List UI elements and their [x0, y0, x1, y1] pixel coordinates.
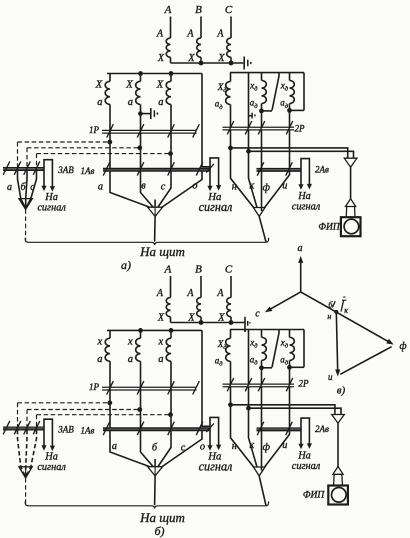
svg-text:а: а [158, 354, 163, 365]
secondary winding 1 coil [105, 338, 110, 361]
secondary winding 3 top lead [170, 74, 172, 82]
junction dot dashed3/wire c [168, 412, 173, 417]
3Ав contact slash x36.5 [33, 421, 40, 434]
phasor vector a arrowhead [298, 256, 303, 263]
svg-text:н: н [232, 441, 237, 452]
svg-text:1Ав: 1Ав [81, 166, 95, 176]
primary winding label X (С) [217, 312, 225, 323]
svg-text:А: А [164, 264, 172, 276]
aux winding 2 lead+coil [262, 73, 267, 111]
phase А lead wire [170, 276, 172, 298]
junction dot bus/B [199, 61, 204, 66]
aux winding 3 label xд [280, 337, 289, 349]
phase label С [225, 264, 233, 276]
3Ав wire c to junction [26, 430, 37, 477]
primary X lead (В) [200, 57, 202, 63]
secondary group top bus [107, 73, 202, 75]
terminal label и [282, 440, 287, 451]
junction dot earth tap (winding b) [138, 111, 143, 116]
dashed signal wire 2 [27, 409, 140, 411]
junction dot dashed2/wire b [137, 145, 142, 150]
На щит label [139, 510, 185, 525]
junction dot bus/B [199, 320, 204, 325]
dashed signal wire 3 [37, 414, 171, 416]
dashed signal wire 1 [18, 141, 110, 143]
2Ав contact slash x260.5 [257, 422, 264, 435]
secondary right feeder wire [202, 330, 210, 426]
breaker 1Ав label [81, 166, 95, 176]
dashed drop to panel bus [25, 478, 27, 505]
2Ав label [315, 165, 329, 175]
wire и [265, 387, 290, 467]
svg-text:2Ав: 2Ав [315, 165, 329, 175]
фип cable junction [332, 415, 345, 424]
wire right junction to panel [259, 476, 266, 505]
svg-text:X: X [217, 53, 225, 64]
secondary winding 2 coil [136, 81, 141, 104]
svg-text:н: н [327, 312, 331, 321]
1Ав contact slash x140.5 [137, 422, 144, 435]
svg-text:а: а [98, 182, 103, 193]
2Р contact slash x230.5 [227, 378, 234, 391]
aux wire 2 [248, 330, 250, 385]
3Ав signal arrow left [41, 186, 46, 192]
phase В lead wire [200, 276, 202, 298]
svg-text:сигнал: сигнал [37, 202, 66, 213]
svg-text:X: X [125, 80, 133, 91]
junction dot aux w2 bottom [259, 365, 264, 370]
2Ав signal arrow left [298, 444, 303, 450]
cable junction (3Ав) [19, 467, 32, 478]
aux wire 2 (earthed) [248, 73, 250, 128]
svg-text:а: а [128, 97, 133, 108]
svg-text:А: А [216, 288, 224, 299]
breaker 1Ав contact row [103, 428, 210, 431]
svg-text:а: а [97, 354, 102, 365]
фип box [328, 486, 348, 505]
terminal label в [141, 181, 146, 192]
secondary winding 1 label a [97, 97, 102, 108]
terminal label о [200, 442, 205, 453]
phase label С [225, 4, 233, 16]
1Р contact slash x196 [193, 124, 200, 137]
dashed drop 1 [17, 142, 19, 167]
aux group right edge [303, 73, 305, 111]
dashed signal wire 3 [37, 153, 171, 155]
secondary winding 1 top lead [109, 330, 111, 338]
phasor tick k [341, 300, 344, 311]
svg-text:в: в [141, 181, 146, 192]
3Ав На сигнал label [37, 452, 66, 473]
secondary winding 2 bottom lead [140, 104, 142, 168]
svg-text:В: В [195, 264, 202, 276]
junction dot фип feed 1 [228, 146, 233, 151]
svg-text:А: А [156, 288, 164, 299]
secondary winding 2 bottom lead [140, 361, 142, 428]
phasor label ф [399, 341, 406, 352]
relay 2Р contact row [223, 127, 295, 130]
wire b to junction [141, 171, 154, 207]
secondary winding 3 coil [166, 338, 171, 361]
1Р contact slash x171 [168, 124, 175, 137]
3Ав contact slash x6.5 [3, 421, 10, 434]
junction dot фип feed 1 [228, 402, 233, 407]
terminal label а [98, 182, 103, 193]
3Ав contact slash x17.5 [14, 421, 21, 434]
3Ав wire a to junction [18, 430, 26, 477]
secondary winding 1 top lead [109, 74, 111, 82]
фип connector triangle [333, 467, 343, 475]
relay 1Р contact row [102, 130, 197, 133]
secondary winding 2 label a [128, 354, 133, 365]
primary winding label X (В) [187, 53, 195, 64]
svg-text:1Ав: 1Ав [81, 425, 95, 435]
svg-text:ФИП: ФИП [318, 222, 341, 232]
wire a to junction [110, 431, 149, 467]
svg-text:и: и [282, 180, 287, 191]
cable junction (3Ав) [19, 199, 32, 210]
primary winding label А (С) [216, 29, 224, 40]
primary neutral bus [171, 62, 244, 64]
junction dot dashed1/wire a [107, 140, 112, 145]
3Ав wire c to junction [26, 170, 37, 208]
secondary winding 2 label X [127, 336, 133, 347]
3Ав signal arrow left [41, 445, 46, 451]
terminal label н [232, 441, 237, 452]
wire ф [261, 387, 263, 471]
3Ав signal bracket [44, 419, 52, 446]
фип cable junction [344, 158, 357, 167]
wire o to junction [162, 171, 202, 207]
sub-label б) [154, 524, 164, 538]
aux winding 3 lead+coil [290, 330, 295, 368]
aux bottom link w3 [290, 366, 305, 368]
aux winding 2 label xд [249, 81, 258, 93]
secondary winding 2 coil [136, 338, 141, 361]
phasor label б [328, 300, 333, 309]
relay 1Р label [89, 382, 100, 392]
3Ав wire b to junction [26, 430, 27, 477]
aux winding 3 label aд [280, 355, 289, 367]
3Ав contact slash x6.5 [3, 161, 10, 174]
1Ав bracket slash [206, 423, 214, 432]
1Р contact slash x110 [107, 381, 114, 394]
primary neutral bus [171, 322, 245, 324]
primary winding label X (В) [187, 312, 195, 323]
aux wire 3 drop [261, 111, 263, 127]
svg-text:ф: ф [263, 182, 271, 193]
svg-text:На щит: На щит [139, 510, 185, 525]
aux winding 2 label xд [249, 337, 258, 349]
primary winding coil (В phase) [197, 38, 201, 57]
secondary group top bus [107, 329, 202, 331]
svg-text:X: X [187, 53, 195, 64]
secondary winding 1 coil [105, 81, 110, 104]
1Ав contact slash x199.5 [196, 422, 203, 435]
aux bottom link w2 [262, 367, 273, 369]
фип feed line 2 [249, 151, 354, 158]
secondary winding 3 label X [158, 336, 164, 347]
1Ав contact slash x106.5 [103, 162, 110, 175]
1Ав contact slash x140.5 [137, 162, 144, 175]
wire к [249, 387, 258, 467]
aux winding 1 label aд [215, 99, 224, 111]
relay 2Р label [299, 378, 310, 388]
breaker 3Ав contact row [3, 427, 44, 430]
terminal label б [152, 443, 158, 454]
aux group top bus [230, 329, 304, 331]
aux group top bus [230, 72, 304, 74]
phase С lead wire [230, 276, 232, 298]
aux winding 1 lead+coil [226, 73, 231, 128]
primary X lead (А) [170, 57, 172, 63]
aux winding 3 lead+coil [290, 73, 295, 111]
svg-text:3АВ: 3АВ [57, 425, 74, 435]
2Ав На сигнал label [292, 451, 321, 473]
phasor tick b [332, 301, 335, 307]
фип lamp circle [344, 219, 359, 234]
secondary winding 3 top lead [170, 330, 172, 338]
phasor vector ф line [301, 292, 389, 342]
aux earth tick [249, 115, 252, 117]
phasor vector c line [269, 292, 301, 310]
svg-text:сигнал: сигнал [37, 462, 66, 473]
aux winding 2 lead+coil [262, 330, 267, 368]
3Ав contact slash x17.5 [14, 161, 21, 174]
1Р contact slash x140.5 [137, 381, 144, 394]
secondary right feeder wire [202, 74, 210, 167]
1Ав На сигнал label [199, 451, 233, 474]
aux winding 3 label xд [280, 81, 289, 93]
фип feed line 1 [231, 148, 348, 158]
phase С lead wire [230, 17, 232, 39]
phase В lead wire [200, 17, 202, 39]
aux winding 1 label Xд [217, 82, 228, 94]
svg-text:2Р: 2Р [295, 124, 306, 134]
фип lamp circle [332, 488, 347, 503]
1Ав contact slash x199.5 [196, 162, 203, 175]
junction dot aux w3 bottom [287, 365, 292, 370]
phase label А [164, 4, 172, 16]
1Ав contact slash x171 [168, 422, 175, 435]
3Ав contact slash x27 [24, 161, 31, 174]
svg-text:и: и [282, 440, 287, 451]
1Ав bracket slash [206, 164, 214, 173]
terminal label к [249, 440, 254, 451]
secondary winding 2 top lead [140, 74, 142, 82]
relay 2Р label [295, 124, 306, 134]
panel bracket [25, 501, 268, 508]
wire c to junction [158, 171, 171, 207]
phasor vector a line [300, 262, 302, 292]
фип drop wire [350, 167, 352, 199]
phasor label a [298, 243, 303, 254]
panel bracket [25, 238, 268, 245]
wire и [265, 130, 290, 208]
junction dot фип feed 2 [246, 149, 251, 154]
wire н [231, 130, 254, 208]
3Ав contact slash x27 [24, 421, 31, 434]
3Ав label [57, 425, 74, 435]
3Ав wire b to junction [26, 170, 27, 208]
2Ав На сигнал label [292, 191, 321, 213]
primary winding label А (В) [186, 288, 194, 299]
primary winding coil (А phase) [166, 38, 170, 57]
wire b to junction [141, 431, 154, 467]
primary winding coil (А phase) [166, 298, 170, 317]
svg-text:X: X [95, 80, 103, 91]
primary X lead (С) [230, 57, 232, 63]
phasor label н [327, 312, 331, 321]
junction dot dashed3/wire c [168, 151, 173, 156]
svg-text:и: и [328, 372, 333, 382]
svg-text:С: С [225, 264, 233, 276]
wire junction to panel [154, 200, 157, 242]
svg-text:с: с [161, 182, 166, 193]
ground (aux) [252, 113, 255, 119]
cable junction (main) [148, 207, 163, 216]
3Ав terminal c label [30, 182, 35, 193]
1Ав signal bracket [210, 417, 219, 446]
svg-text:а: а [97, 97, 102, 108]
primary X lead (В) [200, 317, 202, 323]
secondary winding 1 label X [95, 80, 103, 91]
cable junction (main) [148, 467, 163, 476]
secondary winding 1 bottom lead [109, 361, 111, 428]
aux bottom link w2 [262, 110, 273, 112]
earth tap wire [141, 113, 151, 115]
2Ав signal bracket [301, 418, 309, 444]
phasor label и [328, 372, 333, 382]
aux winding 2 label aд [250, 98, 259, 110]
svg-text:б): б) [154, 524, 164, 538]
3Ав На сигнал label [37, 192, 66, 213]
terminal label с [181, 443, 186, 454]
terminal label с [161, 182, 166, 193]
primary winding label А (А) [156, 288, 164, 299]
3Ав contact slash x36.5 [33, 161, 40, 174]
svg-text:В: В [195, 4, 202, 16]
dashed signal wire 1 [18, 402, 110, 404]
cable junction (right) [253, 467, 265, 476]
junction dot dashed1/wire a [107, 400, 112, 405]
1Р contact slash x110 [107, 124, 114, 137]
phase label В [195, 264, 202, 276]
svg-text:ФИП: ФИП [303, 491, 326, 501]
secondary winding 1 label X [97, 336, 103, 347]
aux open-delta slant [272, 73, 279, 111]
2Р contact slash x289.5 [286, 121, 293, 134]
svg-text:1Р: 1Р [89, 382, 100, 392]
2Р contact slash x289.5 [286, 378, 293, 391]
фип box [341, 217, 361, 236]
svg-text:а: а [298, 243, 303, 254]
terminal label и [282, 180, 287, 191]
svg-text:ф: ф [399, 341, 406, 352]
1Р contact slash x171 [168, 381, 175, 394]
sub-label а) [121, 258, 131, 272]
secondary winding 2 top lead [140, 330, 142, 338]
phasor line и-ф [340, 347, 391, 375]
фип feed line 2 [249, 408, 342, 414]
phasor label c [255, 309, 260, 320]
aux bottom link w3 [290, 109, 305, 111]
2Ав contact slash x289 [286, 422, 293, 435]
phasor label к [344, 306, 348, 315]
phase label В [195, 4, 202, 16]
phasor vector и line [336, 312, 337, 371]
svg-text:б: б [152, 443, 158, 454]
svg-text:к: к [344, 306, 348, 315]
primary winding label X (А) [157, 53, 165, 64]
3Ав signal bracket [44, 160, 52, 187]
primary winding label X (А) [157, 312, 165, 323]
breaker 1Ав contact row [103, 168, 210, 171]
wire junction to panel [154, 459, 157, 505]
3Ав wire a to junction [18, 170, 26, 208]
На щит label [139, 244, 185, 259]
dashed drop 2 [26, 410, 28, 427]
dashed drop 1 [17, 403, 19, 427]
1Ав На сигнал label [199, 191, 233, 214]
dashed drop to panel bus [25, 209, 27, 241]
2Ав signal arrow left [298, 184, 303, 190]
ФИП label [303, 491, 326, 501]
breaker 1Ав label [81, 425, 95, 435]
relay 1Р contact row [102, 387, 197, 390]
terminal label н [232, 181, 237, 192]
junction dot фип feed 2 [246, 406, 251, 411]
phasor vector c arrowhead [265, 307, 272, 313]
svg-text:сигнал: сигнал [199, 200, 233, 214]
svg-text:X: X [157, 312, 165, 323]
svg-text:с: с [255, 309, 260, 320]
1Ав signal arrow right [216, 445, 221, 451]
ground (secondary b) [151, 108, 158, 119]
breaker 2Ав contact row [257, 428, 302, 431]
aux wire 3 drop [261, 368, 263, 384]
terminal label ф [263, 442, 271, 453]
3Ав signal arrow right [50, 186, 55, 192]
aux winding 1 label aд [215, 356, 224, 368]
aux wire 4 drop [289, 110, 291, 127]
secondary winding 3 label a [158, 97, 163, 108]
relay 2Р contact row [223, 384, 295, 387]
dashed drop 3 [36, 415, 38, 427]
aux winding 1 lead+coil [226, 330, 231, 385]
phase А lead wire [170, 17, 172, 39]
secondary winding 1 label a [97, 354, 102, 365]
aux group right edge [303, 330, 305, 368]
1Ав signal arrow left [207, 186, 212, 192]
3Ав label [57, 165, 74, 175]
3Ав terminal b label [20, 182, 26, 193]
svg-text:А: А [186, 29, 194, 40]
svg-text:н: н [232, 181, 237, 192]
dashed drop 2 [26, 148, 28, 168]
svg-text:а: а [7, 182, 12, 193]
2Ав signal bracket [301, 159, 309, 185]
dashed drop 3 [36, 154, 38, 168]
svg-text:2Р: 2Р [299, 378, 310, 388]
1Ав signal arrow left [207, 445, 212, 451]
svg-text:А: А [164, 4, 172, 16]
primary X lead (С) [230, 317, 232, 323]
aux open-delta slant [272, 330, 279, 368]
ground (primary neutral) + link to aux box [245, 317, 250, 332]
secondary winding 2 label X [125, 80, 133, 91]
2Ав contact slash x289 [286, 162, 293, 175]
